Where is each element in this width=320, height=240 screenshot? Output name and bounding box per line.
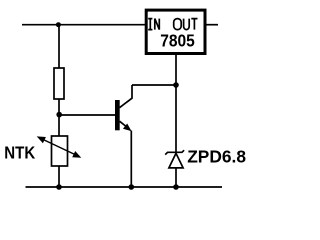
node ground left: [56, 184, 62, 190]
transistor Q1 base bar: [115, 100, 120, 130]
wire zener to ground rail: [175, 168, 177, 187]
svg-text:NTK: NTK: [4, 144, 35, 163]
resistor R1: [54, 68, 64, 99]
wire base node down to NTK thermistor: [58, 115, 60, 136]
wire collector to regulator gnd line: [132, 84, 176, 86]
wire regulator OUT stub: [207, 24, 219, 26]
wire input rail top: [22, 24, 146, 26]
node base junction: [56, 112, 62, 118]
label IN (pin): [148, 19, 159, 30]
wire from input rail down to R1: [58, 25, 60, 68]
thermistor NTK body: [52, 136, 68, 166]
wire regulator GND down: [175, 55, 177, 152]
thermistor NTK arrow: [37, 136, 82, 157]
transistor Q1 collector: [120, 85, 133, 108]
zener diode D1 ZPD6.8: [165, 150, 184, 168]
transistor Q1 emitter arrowhead: [123, 124, 132, 132]
wire R1 bottom to base node: [58, 99, 60, 115]
node collector junction: [173, 82, 179, 88]
svg-text:ZPD6.8: ZPD6.8: [187, 147, 246, 167]
wire base node to transistor base: [59, 114, 115, 116]
regulator U1 7805 box: [146, 10, 205, 53]
wire NTK bottom to ground rail: [58, 166, 60, 187]
wire emitter down to ground rail: [130, 131, 132, 188]
node ground right: [173, 184, 179, 190]
label OUT (pin): [174, 19, 198, 30]
node input junction: [56, 22, 61, 27]
node ground middle: [129, 184, 135, 190]
wire ground rail: [26, 186, 223, 188]
transistor Q1 emitter: [120, 121, 130, 129]
svg-text:7805: 7805: [160, 31, 195, 51]
